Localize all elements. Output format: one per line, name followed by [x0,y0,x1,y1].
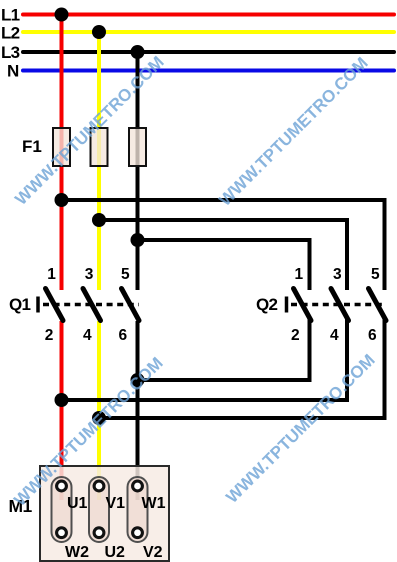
svg-text:W1: W1 [142,495,166,512]
motor M1 terminal box [40,466,169,561]
motor M1 link bar U1-W2 [52,477,72,542]
switch Q2 pole 2 blade [331,289,349,321]
junction dot on yellow drop at Q2 feed tap [92,213,106,227]
wire: Q1 pole 3 output black drop (terminal 6 to motor W1) [136,321,140,500]
switch Q2 pole 1 blade [294,289,312,321]
svg-text:3: 3 [85,266,94,283]
switch Q1 pole 2 blade [83,289,101,321]
motor M1 link bar W1-V2 [128,477,148,542]
fuse F1 pole 3 [129,128,146,166]
svg-text:2: 2 [45,327,54,344]
svg-text:4: 4 [83,327,92,344]
svg-text:1: 1 [295,266,304,283]
motor terminal U1 [57,481,67,491]
wire: tap from L3 drop to Q2 terminal 1 [138,240,310,290]
svg-text:L1: L1 [1,6,20,25]
svg-text:W2: W2 [65,544,89,561]
svg-text:N: N [7,62,19,81]
svg-text:U2: U2 [105,544,126,561]
motor M1 link bar V1-U2 [89,477,109,542]
svg-text:6: 6 [368,327,377,344]
svg-text:5: 5 [121,266,130,283]
switch Q1 pole 3 blade [122,289,140,321]
switch Q2 linkage dashed line [291,303,386,306]
svg-text:L2: L2 [1,24,20,43]
wire: phase L1 red drop, upper segment (bus to Q1 pole 1) [60,15,64,291]
junction dot on red drop at Q2 feed tap [55,193,69,207]
bus line L3 [23,50,394,54]
svg-text:2: 2 [291,327,300,344]
svg-text:V2: V2 [143,544,163,561]
junction dot on yellow drop at Q2 output join [92,411,106,425]
svg-text:L3: L3 [1,43,20,62]
motor terminal U2 [94,528,104,538]
switch Q1 actuator tick [36,297,40,313]
junction dot on red drop at Q2 output join [55,393,69,407]
fuse F1 pole 1 [53,128,70,166]
junction dot on L3 bus [131,45,145,59]
wire: Q2 terminal 6 output to yellow phase wire [99,319,385,418]
svg-text:1: 1 [47,266,56,283]
switch Q2 pole 3 blade [369,289,387,321]
svg-text:V1: V1 [106,495,126,512]
svg-text:Q2: Q2 [256,295,278,314]
svg-text:Q1: Q1 [9,295,31,314]
wire: phase L3 black drop, upper segment (bus to Q1 pole 3) [136,52,140,290]
switch Q2 actuator tick [285,297,289,313]
motor terminal V2 [133,528,143,538]
svg-text:3: 3 [333,266,342,283]
svg-text:5: 5 [371,266,380,283]
bus line L2 [23,30,394,34]
svg-text:U1: U1 [67,495,88,512]
wire: tap from L1 drop to Q2 terminal 5 [62,200,385,290]
motor terminal V1 [94,481,104,491]
junction dot on L1 bus [55,8,69,22]
switch Q1 pole 1 blade [46,289,64,321]
junction dot on L2 bus [92,25,106,39]
fuse F1 pole 2 [91,128,108,166]
wire: Q1 pole 2 output yellow drop (terminal 4 to motor V1) [97,321,101,500]
wire: Q2 terminal 2 output to black phase wire [138,319,310,380]
switch Q1 linkage dashed line [43,303,139,306]
junction dot on black drop at Q2 feed tap [131,233,145,247]
wire: Q2 terminal 4 output to red phase wire [62,319,348,400]
bus line L1 [23,13,394,17]
svg-text:6: 6 [119,327,128,344]
wire: Q1 pole 1 output red drop (terminal 2 to motor U1) [60,321,64,500]
bus line N [23,69,394,73]
svg-text:4: 4 [330,327,339,344]
motor terminal W1 [133,481,143,491]
svg-text:F1: F1 [22,137,42,156]
motor terminal W2 [57,528,67,538]
wire: phase L2 yellow drop, upper segment (bus to Q1 pole 2) [97,32,101,290]
junction dot on black drop at Q2 output join [131,373,145,387]
wire: tap from L2 drop to Q2 terminal 3 [99,220,347,290]
